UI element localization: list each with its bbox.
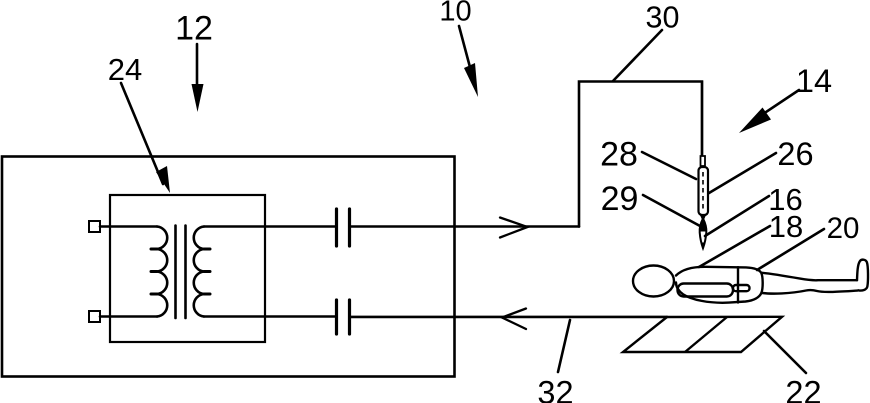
svg-text:26: 26 <box>777 136 813 172</box>
svg-text:30: 30 <box>646 1 680 35</box>
svg-text:32: 32 <box>537 375 573 403</box>
svg-text:18: 18 <box>769 209 803 244</box>
svg-text:12: 12 <box>175 10 213 48</box>
svg-text:24: 24 <box>108 52 142 87</box>
svg-text:29: 29 <box>601 180 639 218</box>
svg-text:28: 28 <box>600 136 638 174</box>
svg-text:20: 20 <box>827 212 860 245</box>
svg-text:10: 10 <box>439 0 471 28</box>
svg-text:22: 22 <box>785 375 821 403</box>
svg-text:14: 14 <box>796 63 832 99</box>
